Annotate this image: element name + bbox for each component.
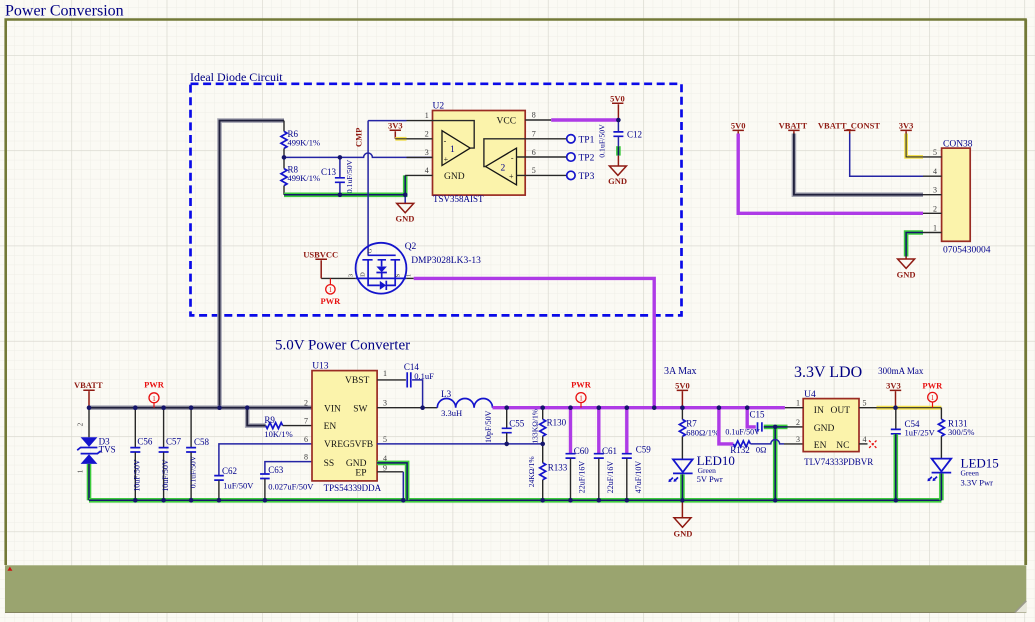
capacitor C55 [506,408,508,428]
svg-text:+: + [444,155,449,164]
LED15 [932,459,952,472]
capacitor C58 [190,408,192,448]
resistor R130 [542,408,544,420]
U4 pin stubs/numbers [785,407,803,409]
svg-text:680Ω/1%: 680Ω/1% [686,427,719,437]
inductor L3 [437,399,492,408]
svg-text:499K/1%: 499K/1% [288,173,321,183]
svg-text:1: 1 [579,394,583,403]
svg-text:Q2: Q2 [405,242,417,252]
green wire C12 to GND [616,146,621,155]
svg-text:U2: U2 [433,102,445,112]
svg-text:0Ω: 0Ω [756,444,767,454]
svg-text:22uF/16V: 22uF/16V [606,461,615,494]
svg-text:TLV74333PDBVR: TLV74333PDBVR [804,457,873,467]
svg-text:TVS: TVS [99,445,116,455]
svg-text:0.1uF/50V: 0.1uF/50V [188,455,197,488]
svg-text:C63: C63 [268,465,284,475]
svg-text:C15: C15 [750,410,766,420]
svg-text:1: 1 [425,111,429,120]
svg-text:NC: NC [836,441,849,451]
capacitor C60 [569,408,572,454]
svg-text:VBATT_CONST: VBATT_CONST [818,121,881,131]
svg-text:7: 7 [304,417,308,426]
regulator U13 [312,371,377,481]
svg-text:0705430004: 0705430004 [943,245,991,255]
LED15 cathode to ground bus (green) [939,474,944,501]
svg-text:4: 4 [933,167,937,176]
capacitor C14 [377,379,406,381]
svg-text:1: 1 [329,286,333,294]
svg-text:3: 3 [383,399,387,408]
capacitor C62 [214,476,224,481]
svg-text:3: 3 [425,148,429,157]
svg-text:1: 1 [796,399,800,408]
U13 GND pin green wire [377,463,407,500]
svg-text:1: 1 [76,469,84,473]
svg-text:G: G [367,248,374,253]
svg-text:-: - [511,153,514,162]
wire VBATT to CON38 pin3 (grey-highlight) [794,134,923,195]
svg-text:GND: GND [608,176,627,186]
svg-text:8: 8 [304,453,308,462]
svg-text:S: S [394,273,401,277]
EN branch wire (grey-highlight) [247,408,266,426]
svg-text:SW: SW [353,404,367,414]
svg-text:24KΩ/1%: 24KΩ/1% [527,456,536,488]
svg-text:C57: C57 [166,437,182,447]
svg-text:GND: GND [396,214,415,224]
VBATT input bus (grey-highlight) [89,405,312,410]
svg-text:TPS54339DDA: TPS54339DDA [324,483,382,493]
svg-text:2: 2 [933,204,937,213]
svg-text:VBATT: VBATT [74,380,103,390]
feedback wire pin5 [377,443,543,445]
ground bus (green) [89,498,941,503]
capacitor C61 [597,408,600,454]
svg-text:C55: C55 [509,418,525,428]
svg-text:VBATT: VBATT [779,121,808,131]
Q2 source/drain pin wires [321,277,356,279]
svg-text:R130: R130 [547,418,567,428]
wire Q2 drain to 5V0 bus (purple) [414,278,655,407]
wire R6/R8 node to U2 pin3 (hop over vertical at x=368) [284,153,433,157]
svg-text:3: 3 [933,186,937,195]
resistor R6 [283,121,285,132]
svg-text:3V3: 3V3 [886,381,901,391]
U2 pin stubs [405,121,432,176]
diode D3 TVS [88,408,90,438]
capacitor C59 [625,408,628,454]
wire op-amp output to Q2 gate (vertical x=368) [367,121,369,256]
svg-text:10uF/50V: 10uF/50V [161,459,170,492]
wire 5V0 to R132 (purple) [719,408,734,444]
resistor R131 [940,408,942,420]
svg-text:PWR: PWR [144,380,165,390]
svg-text:300mA Max: 300mA Max [878,366,924,376]
svg-text:10pF/50V: 10pF/50V [484,410,493,443]
resistor R7 [681,408,683,420]
3.3V output wire (yellow) [877,406,942,410]
svg-text:+: + [509,172,514,181]
LED10 cathode to ground bus (green) [680,474,685,500]
D3 to ground bus (green) [87,464,92,500]
svg-text:EN: EN [324,422,337,432]
svg-text:10uF/50V: 10uF/50V [133,459,142,492]
svg-text:C56: C56 [137,437,153,447]
resistor R8 [283,157,285,168]
svg-text:EP: EP [355,469,366,479]
svg-text:1: 1 [931,394,935,402]
svg-text:1: 1 [152,394,156,403]
wire 3V3 to CON38 pin5 (yellow) [906,134,923,157]
ground under LED10 [674,500,691,527]
svg-text:R132: R132 [730,445,750,455]
test point TP3 [567,171,575,179]
svg-text:1: 1 [450,145,455,155]
capacitor C13 [339,157,341,177]
green wire C15 to GND node [764,425,775,430]
svg-text:C59: C59 [636,445,652,455]
svg-text:3V3: 3V3 [899,121,914,131]
svg-text:4: 4 [425,166,429,175]
PWR directive at Q2 [329,278,331,284]
svg-text:3.3V LDO: 3.3V LDO [794,364,862,381]
green wire C54 to bus [893,434,898,500]
svg-text:1uF/50V: 1uF/50V [223,480,254,490]
svg-text:2: 2 [796,418,800,427]
svg-text:22uF/16V: 22uF/16V [578,461,587,494]
svg-text:D: D [359,272,366,277]
svg-text:1: 1 [933,224,937,233]
svg-text:2: 2 [501,163,506,173]
bottom-right page fold [1015,601,1027,613]
svg-text:Green: Green [961,468,980,477]
svg-text:C12: C12 [627,130,642,140]
svg-text:OUT: OUT [831,406,851,416]
svg-text:C62: C62 [222,466,237,476]
bottom olive bar [5,565,1026,612]
svg-text:0.027uF/50V: 0.027uF/50V [268,482,314,492]
ground under CON38 [898,257,915,269]
svg-text:EN: EN [814,441,827,451]
svg-text:CON38: CON38 [943,139,973,149]
wire 3V3 to pin2 (yellow) [395,137,406,141]
op-amp U2 [433,111,526,196]
svg-text:3.3V Pwr: 3.3V Pwr [961,478,994,488]
svg-text:VCC: VCC [497,117,517,127]
svg-text:8: 8 [532,111,536,120]
svg-text:TSV358AIST: TSV358AIST [433,194,484,204]
capacitor C54 [895,408,897,429]
svg-text:VREG5VFB: VREG5VFB [324,440,373,450]
wire SS to C63 [265,462,312,474]
svg-text:6: 6 [304,435,308,444]
svg-text:0.1uF/50V: 0.1uF/50V [725,427,760,436]
svg-text:0.1uF/50V: 0.1uF/50V [598,124,607,158]
capacitor C57 [163,408,165,448]
svg-text:5V0: 5V0 [610,93,625,103]
svg-text:U13: U13 [312,362,329,372]
svg-text:GND: GND [814,424,835,434]
green wire node to U4 pin2 [775,425,787,430]
svg-text:10K/1%: 10K/1% [264,429,292,439]
svg-text:GND: GND [897,270,916,280]
svg-text:SS: SS [324,459,335,469]
wire 5V0 to CON38 pin2 (purple) [738,134,923,214]
svg-text:C61: C61 [602,446,617,456]
svg-text:TP1: TP1 [579,135,595,145]
svg-text:C13: C13 [321,167,337,177]
svg-text:3A Max: 3A Max [664,366,697,377]
svg-text:C58: C58 [194,437,210,447]
svg-text:2: 2 [76,422,84,426]
U2 amp B triangle [486,148,517,185]
svg-text:GND: GND [674,529,693,539]
wire VBATT from converter up to R6 (grey-highlight net) [220,121,285,408]
capacitor C56 [134,408,136,448]
U13 EP pin wire [377,471,403,473]
transistor Q2 [356,243,407,294]
svg-text:DMP3028LK3-13: DMP3028LK3-13 [411,256,481,266]
wire VCC pin8 (purple 5V0) [551,118,618,121]
LED10 [673,459,693,472]
svg-text:Ideal Diode Circuit: Ideal Diode Circuit [190,70,283,84]
red marker triangle [7,567,12,571]
svg-text:1uF/25V: 1uF/25V [905,427,936,437]
svg-text:VBST: VBST [345,376,369,386]
svg-text:0.1uF: 0.1uF [414,371,434,381]
svg-text:1: 1 [406,274,413,277]
svg-text:4: 4 [863,435,867,444]
svg-text:0.1uF/50V: 0.1uF/50V [345,159,354,193]
svg-text:499K/1%: 499K/1% [288,138,321,148]
svg-text:1: 1 [383,369,387,378]
svg-text:6: 6 [532,148,536,157]
test point TP1 [567,135,575,143]
svg-text:PWR: PWR [922,380,943,390]
capacitor C12 [617,120,619,132]
resistor R133 [542,444,544,463]
connector CON38 [942,148,971,241]
svg-text:5V0: 5V0 [675,381,690,391]
ground under C12 [609,156,626,176]
svg-text:5: 5 [383,435,387,444]
wire VBATT_CONST to CON38 pin4 [850,134,923,177]
capacitor C63 [260,474,270,479]
svg-text:TP2: TP2 [579,154,595,164]
wire VREG5VFB to C62 [219,444,312,475]
svg-text:133KΩ/1%: 133KΩ/1% [530,408,539,443]
5V0 output bus (purple) [493,406,785,409]
svg-text:L3: L3 [441,389,451,399]
wire 5V0 to C15 (purple) [747,408,756,427]
svg-text:Power Conversion: Power Conversion [5,3,124,20]
ground under U2 [404,195,406,203]
svg-text:U4: U4 [804,390,816,400]
CON38 pin stubs [923,157,942,233]
wire CON38 pin1 to GND (green) [906,233,923,257]
svg-text:TP3: TP3 [579,172,595,182]
svg-text:VIN: VIN [324,404,341,414]
wire R132 to U4 pin3 (hop over green) [750,440,784,444]
svg-text:GND: GND [444,172,465,182]
svg-text:-: - [444,136,447,145]
svg-text:3: 3 [348,274,355,277]
svg-text:5: 5 [933,148,937,157]
svg-text:PWR: PWR [571,380,592,390]
svg-text:47uF/10V: 47uF/10V [634,461,643,494]
svg-text:7: 7 [532,129,536,138]
svg-text:5V0: 5V0 [731,121,746,131]
svg-text:PWR: PWR [320,296,341,306]
regulator U4 [803,399,859,452]
svg-text:R133: R133 [548,463,568,473]
resistor R132 [733,441,750,447]
svg-text:5: 5 [532,166,536,175]
svg-text:3: 3 [796,435,800,444]
svg-text:USBVCC: USBVCC [303,249,338,259]
svg-text:3.3uH: 3.3uH [441,408,462,418]
green wire GND node down to bus [773,427,778,500]
svg-text:2: 2 [425,129,429,138]
no-ERC cross at U4 pin4 [869,441,877,449]
svg-text:CMP: CMP [354,128,364,147]
test point TP2 [567,153,575,161]
svg-text:R9: R9 [264,415,275,425]
U13 SW pin wire [377,407,437,409]
Ideal Diode Circuit blanket (dashed box) [191,84,682,316]
svg-text:5.0V Power Converter: 5.0V Power Converter [275,338,410,354]
svg-text:5: 5 [863,399,867,408]
svg-text:2: 2 [304,399,308,408]
svg-text:IN: IN [814,406,824,416]
svg-text:300/5%: 300/5% [948,427,974,437]
U2 amp A triangle [442,131,470,166]
resistor R9 [266,423,283,429]
svg-text:C60: C60 [574,446,590,456]
svg-text:3V3: 3V3 [388,120,403,130]
green GND wire under R8/C13 to U2 pin4 [284,175,405,194]
svg-text:5V Pwr: 5V Pwr [697,474,723,484]
capacitor C15 [758,422,762,431]
